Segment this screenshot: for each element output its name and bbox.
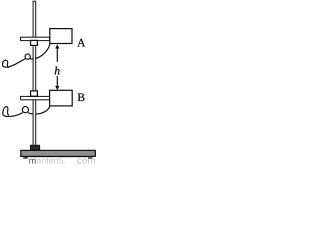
clamp bar A (horizontal arm to box A) <box>21 37 50 40</box>
left foot <box>23 157 28 159</box>
collar block at rod bottom <box>30 145 39 150</box>
label A <box>77 39 85 47</box>
clamp block B (square above bar on rod) <box>31 91 38 96</box>
base plate <box>21 150 96 156</box>
watermark text <box>29 159 35 164</box>
background <box>0 0 98 165</box>
box A (photogate A) <box>50 29 72 44</box>
dimension arrow up (points at bottom of box A) <box>55 44 59 62</box>
dimension arrow down (points at top of box B) <box>55 76 59 90</box>
label h <box>55 67 60 75</box>
vertical rod of the stand <box>33 1 36 146</box>
wire from box A (lead with loop and end hook) <box>3 44 50 68</box>
wire from box B (lead with loop and end hook) <box>3 106 50 116</box>
base shadow <box>28 156 88 159</box>
box B (photogate B) <box>50 90 73 106</box>
right foot <box>88 157 92 159</box>
clamp bar B (horizontal arm to box B) <box>21 96 50 99</box>
clamp block A (square below bar on rod) <box>31 40 38 45</box>
label B <box>78 93 85 101</box>
